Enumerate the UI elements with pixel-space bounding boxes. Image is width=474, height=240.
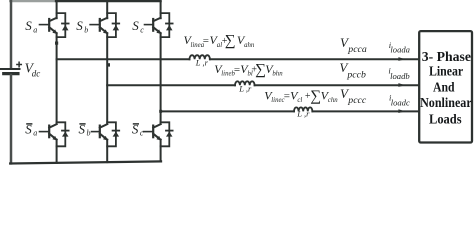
svg-text:=: = xyxy=(234,64,240,76)
wire battery top lead xyxy=(10,1,13,68)
wire phase c line xyxy=(161,110,294,112)
inductor L,r phase b xyxy=(235,81,255,85)
svg-text:Loads: Loads xyxy=(429,112,462,127)
svg-text:pccb: pccb xyxy=(346,69,366,80)
svg-text:=: = xyxy=(284,90,290,102)
diode D of Sa-bar xyxy=(62,130,69,132)
wire phase b line (after inductor) xyxy=(255,84,419,86)
battery Vdc negative plate xyxy=(4,72,18,75)
formula V_linea xyxy=(184,32,255,49)
wire leg b vertical (midpoint) xyxy=(106,33,108,124)
svg-text:ahn: ahn xyxy=(244,42,255,49)
transistor Q: IGBT Sb (top, leg b) xyxy=(90,2,119,37)
wire phase a line xyxy=(57,58,190,60)
arrow i_loadb xyxy=(398,83,405,87)
svg-text:∑: ∑ xyxy=(225,32,236,49)
wire top DC+ bus (left faded segment) xyxy=(10,0,56,2)
wire phase b line xyxy=(107,84,235,86)
wire bottom DC- bus xyxy=(10,161,161,163)
arrow i_loadc xyxy=(398,109,405,113)
arrow i_loada xyxy=(398,57,405,61)
svg-text:=: = xyxy=(203,35,209,47)
plus sign of battery xyxy=(17,62,21,66)
svg-text:pcca: pcca xyxy=(347,44,367,55)
node: leg b junction dot xyxy=(107,63,110,66)
svg-text:dc: dc xyxy=(32,69,41,79)
wire phase a line (after inductor) xyxy=(210,58,419,60)
diode D of Sc xyxy=(166,23,173,25)
svg-text:And: And xyxy=(433,79,455,94)
wire leg a vertical (midpoint) xyxy=(56,33,58,124)
load box: 3-phase linear and nonlinear loads xyxy=(419,31,472,142)
svg-text:L ,r: L ,r xyxy=(296,108,310,118)
svg-text:S: S xyxy=(25,18,32,33)
svg-text:cl: cl xyxy=(297,97,302,104)
transistor Q: IGBT Sa (top, leg a) xyxy=(40,2,69,37)
svg-text:L ,r: L ,r xyxy=(195,57,209,67)
node: leg a midpoint junction dot xyxy=(55,42,58,45)
svg-text:b: b xyxy=(84,25,88,34)
diode D of Sb xyxy=(113,23,120,25)
transistor Q: IGBT Sc-bar (bottom, leg c) xyxy=(144,122,173,161)
wire leg c vertical (midpoint) xyxy=(160,33,162,124)
svg-text:∑: ∑ xyxy=(310,87,321,104)
svg-text:pccc: pccc xyxy=(347,95,367,106)
svg-text:chn: chn xyxy=(328,97,338,104)
diode D of Sc-bar xyxy=(166,130,173,132)
transistor Q: IGBT Sb-bar (bottom, leg b) xyxy=(92,122,120,162)
transistor Q: IGBT Sa-bar (bottom, leg a) xyxy=(40,122,69,163)
load box text xyxy=(420,49,472,127)
svg-text:a: a xyxy=(33,25,37,34)
svg-text:Linear: Linear xyxy=(429,64,463,79)
svg-text:bhn: bhn xyxy=(272,71,283,78)
svg-text:L ,r: L ,r xyxy=(238,84,252,94)
svg-text:loadb: loadb xyxy=(390,71,410,81)
inductor L,r phase a xyxy=(190,55,210,59)
svg-text:loadc: loadc xyxy=(391,97,410,107)
svg-text:b: b xyxy=(87,129,91,138)
diode D of Sa xyxy=(62,23,69,25)
svg-text:a: a xyxy=(33,129,37,138)
svg-text:Nonlinear: Nonlinear xyxy=(420,95,472,110)
inductor L,r phase c xyxy=(294,107,312,111)
diode D of Sb-bar xyxy=(113,130,120,132)
transistor Q: IGBT Sc (top, leg c) xyxy=(145,2,173,37)
svg-text:S: S xyxy=(132,18,139,33)
wire battery bottom lead xyxy=(10,75,13,163)
wire phase c line (after inductor) xyxy=(312,110,418,112)
svg-text:S: S xyxy=(76,18,83,33)
svg-text:3- Phase: 3- Phase xyxy=(422,49,471,64)
svg-text:c: c xyxy=(140,129,144,138)
battery Vdc positive plate xyxy=(1,68,20,70)
wire top DC+ bus xyxy=(56,0,161,2)
node: leg c junction dot xyxy=(159,110,162,113)
formula V_linec xyxy=(264,87,338,104)
formula V_lineb xyxy=(214,61,283,78)
svg-text:c: c xyxy=(140,25,144,34)
svg-text:linec: linec xyxy=(271,97,284,104)
svg-text:loada: loada xyxy=(390,44,410,54)
